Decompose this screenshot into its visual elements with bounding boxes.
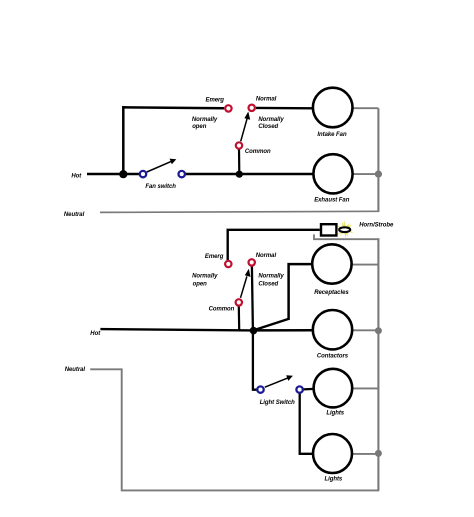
wire light switch to lights2 — [300, 393, 314, 454]
wire lights1 to bus — [352, 387, 378, 389]
switch blade bottom selector — [241, 276, 247, 297]
svg-text:Lights: Lights — [325, 477, 343, 483]
svg-text:Hot: Hot — [90, 331, 101, 337]
terminal common top red — [236, 142, 242, 148]
switch blade light switch — [265, 378, 288, 387]
svg-text:Common: Common — [209, 306, 235, 312]
load lights1 — [314, 369, 353, 408]
load lights2 — [313, 434, 352, 473]
wire junction diagonal to receptacles feed — [254, 319, 289, 330]
terminal fan switch right blue — [179, 171, 185, 177]
svg-text:Fan switch: Fan switch — [145, 184, 176, 190]
wire hot junction up to emerg — [123, 107, 224, 175]
junction exhaust-bus gray dot — [375, 171, 382, 178]
svg-text:Light Switch: Light Switch — [260, 400, 295, 406]
svg-text:Closed: Closed — [258, 124, 278, 130]
wire light switch to lights1 — [303, 388, 314, 391]
wire contactors to bus — [352, 329, 378, 331]
svg-text:Closed: Closed — [258, 282, 278, 288]
svg-text:Normal: Normal — [256, 97, 277, 103]
wire fan switch to exhaust fan — [185, 173, 314, 175]
wire junction to contactors — [254, 329, 314, 332]
strobe starburst — [337, 220, 354, 239]
svg-text:Lights: Lights — [326, 411, 344, 417]
wire normal bottom lead — [252, 266, 253, 330]
svg-text:Normally: Normally — [192, 274, 218, 280]
svg-text:Contactors: Contactors — [317, 354, 349, 360]
svg-text:Normal: Normal — [256, 253, 277, 259]
wire common top lead — [238, 149, 241, 175]
terminal common bottom red — [236, 299, 242, 305]
junction hot bottom dot — [250, 327, 258, 335]
wire light switch drop — [253, 331, 257, 390]
svg-text:Neutral: Neutral — [65, 367, 86, 373]
wire exhaust fan to bus — [352, 173, 379, 175]
wire receptacles to bus — [352, 264, 379, 266]
wire neutral bottom run — [90, 369, 379, 490]
terminal normal bottom red — [249, 259, 255, 265]
svg-text:Horn/Strobe: Horn/Strobe — [359, 223, 394, 229]
terminal light switch left blue — [257, 386, 263, 392]
wire lights2 to bus — [352, 453, 378, 455]
load receptacles — [312, 244, 351, 283]
switch blade fan switch — [147, 161, 172, 172]
switch blade fan switch arrowhead — [170, 159, 177, 165]
load contactors — [313, 310, 352, 349]
terminal emerg bottom red — [225, 261, 231, 267]
junction hot-emerg dot — [119, 170, 127, 178]
horn bell ellipse — [339, 227, 350, 232]
terminal normal top red — [249, 105, 255, 111]
svg-text:open: open — [192, 124, 207, 130]
svg-text:Emerg: Emerg — [206, 97, 225, 103]
wire emerg bottom to horn — [228, 230, 320, 261]
terminal light switch right blue — [296, 386, 302, 392]
switch blade top selector — [241, 119, 247, 141]
wire neutral bottom bus — [377, 238, 379, 490]
wire hot bottom — [100, 329, 253, 330]
wire normal to intake fan — [256, 107, 314, 110]
svg-text:Common: Common — [245, 149, 271, 155]
wire horn neutral — [314, 234, 378, 239]
horn strobe box — [321, 224, 336, 235]
svg-text:Emerg: Emerg — [205, 254, 224, 260]
wire neutral top run — [100, 211, 378, 212]
svg-text:Hot: Hot — [71, 174, 82, 180]
svg-text:Intake Fan: Intake Fan — [317, 132, 347, 138]
switch blade bottom selector arrowhead — [245, 269, 251, 277]
svg-text:Normally: Normally — [192, 117, 218, 123]
junction contactors-bus gray dot — [375, 327, 382, 334]
junction hot-common dot — [236, 171, 243, 178]
terminal emerg top red — [225, 105, 231, 111]
switch blade top selector arrowhead — [244, 112, 250, 120]
switch blade light switch arrowhead — [286, 375, 293, 381]
svg-text:Normally: Normally — [258, 117, 284, 123]
svg-text:open: open — [193, 281, 208, 287]
wire intake fan to bus — [352, 107, 378, 109]
wire common bottom lead — [238, 306, 241, 330]
svg-text:Exhaust Fan: Exhaust Fan — [314, 197, 350, 203]
terminal fan switch left blue — [140, 171, 146, 177]
wire receptacles feed riser — [289, 264, 313, 320]
junction lights2-bus gray dot — [375, 450, 382, 457]
wire hot top lead — [87, 173, 140, 175]
load intake fan — [313, 88, 353, 128]
svg-text:Receptacles: Receptacles — [314, 290, 349, 296]
svg-text:Neutral: Neutral — [64, 212, 85, 218]
load exhaust fan — [313, 154, 352, 193]
svg-text:Normally: Normally — [258, 274, 284, 280]
wire neutral top vertical bus — [377, 108, 379, 212]
